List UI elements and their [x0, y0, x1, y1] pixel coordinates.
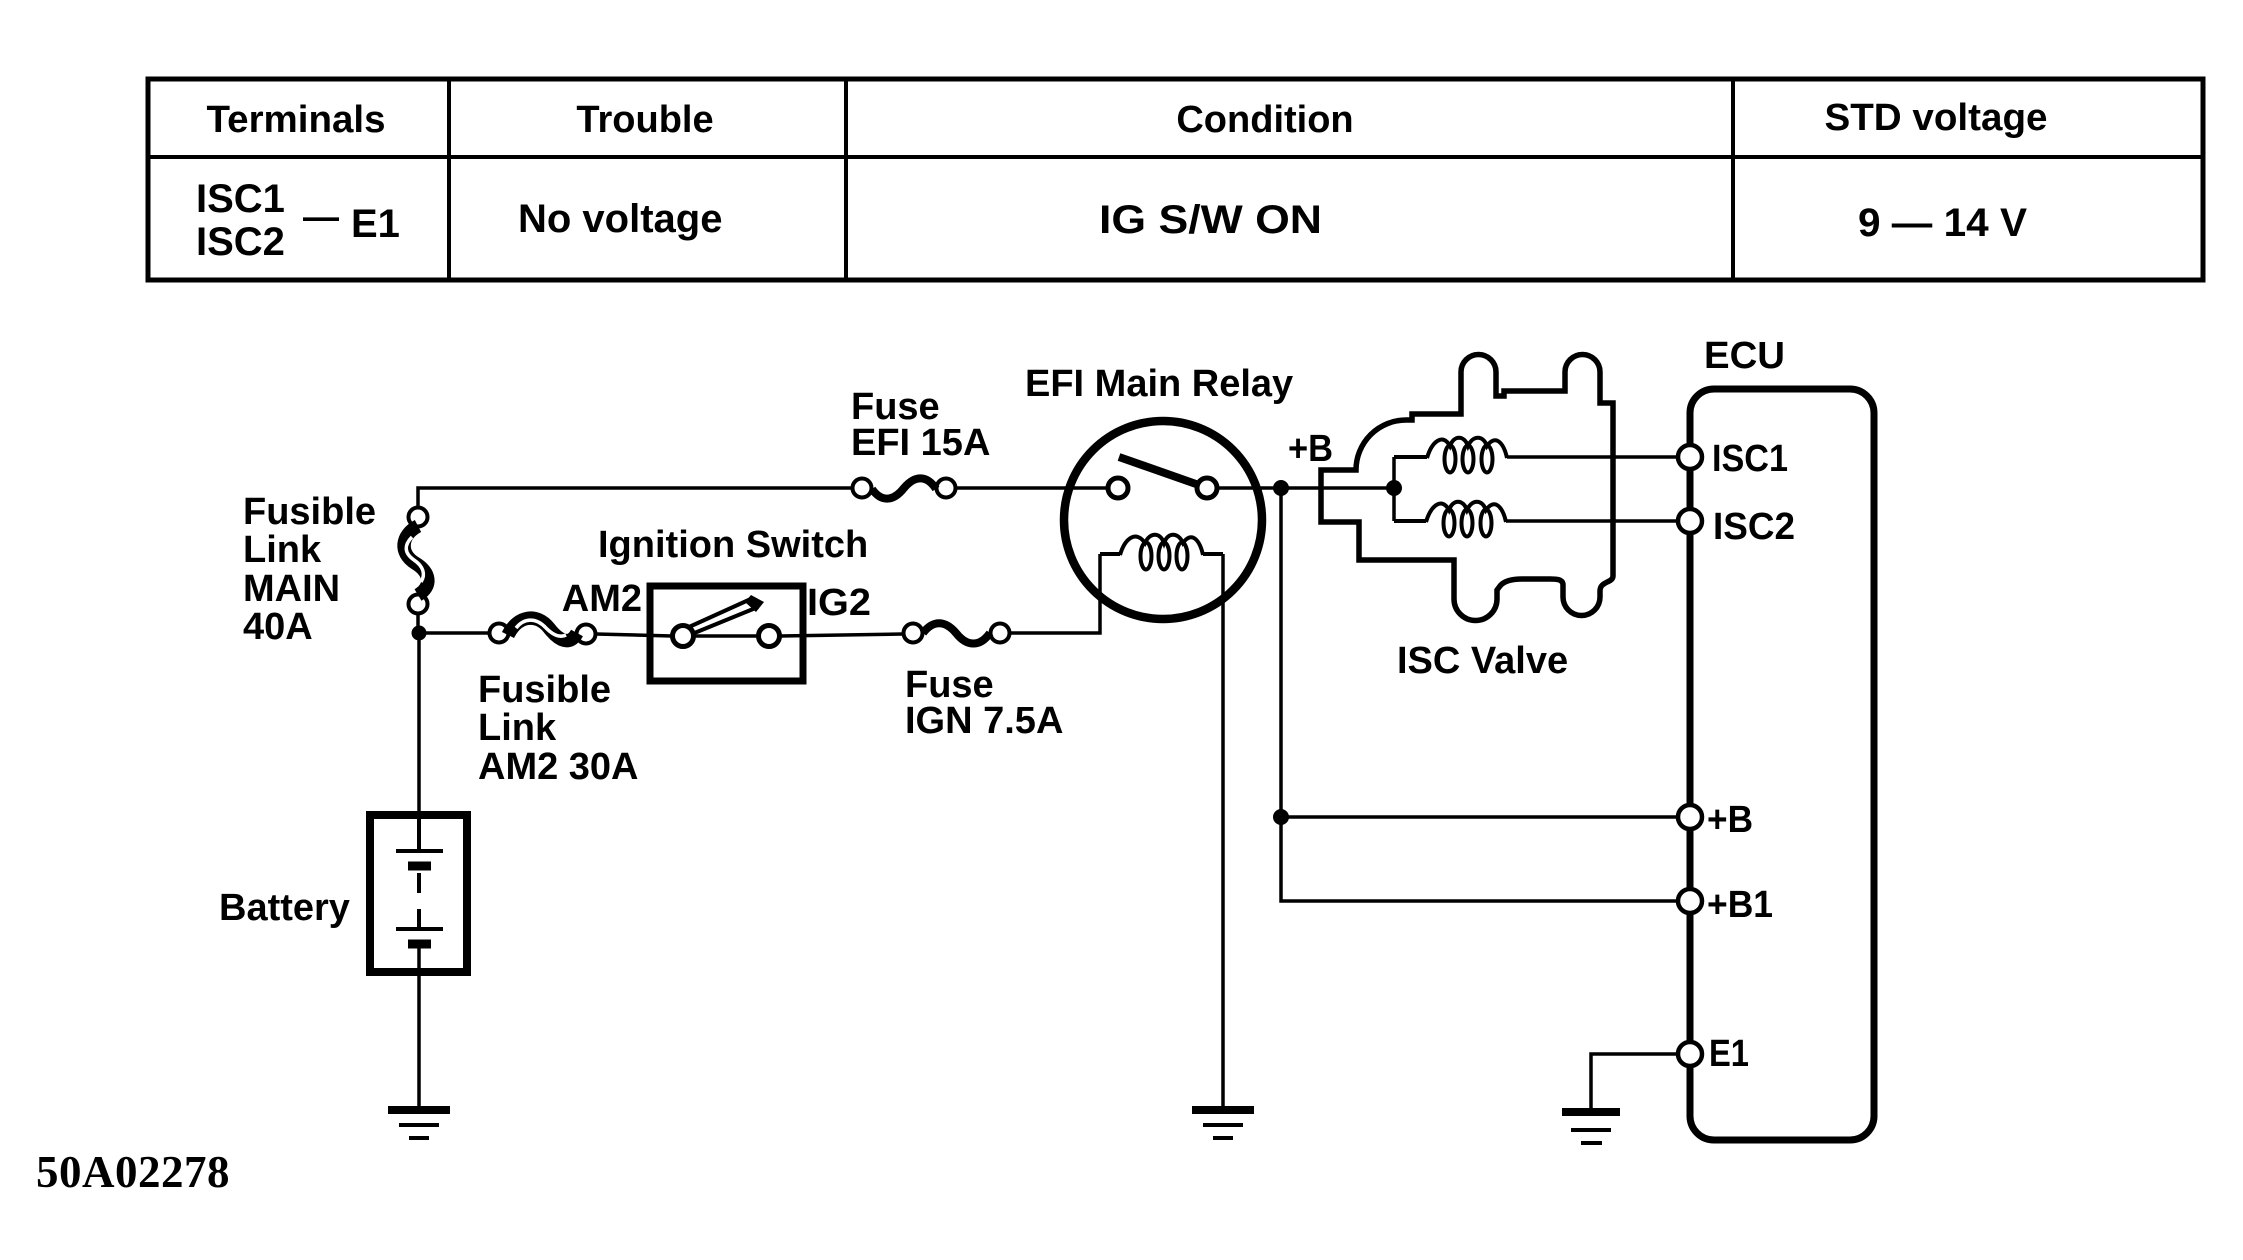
svg-text:E1: E1: [1709, 1033, 1749, 1075]
wire: ISC valve coil 1 to ECU ISC1: [1507, 455, 1677, 459]
node: ISC valve branch junction: [1386, 480, 1402, 496]
svg-text:ISC2: ISC2: [196, 220, 285, 264]
wire: fuse IGN to relay coil riser: [1010, 554, 1100, 633]
svg-text:IG S/W ON: IG S/W ON: [1099, 198, 1322, 242]
svg-text:+B: +B: [1707, 799, 1753, 841]
svg-text:Link: Link: [243, 529, 322, 571]
svg-text:IGN 7.5A: IGN 7.5A: [905, 700, 1063, 742]
ignition switch blade: [689, 595, 764, 634]
svg-text:Fusible: Fusible: [478, 669, 611, 711]
ECU terminal +B: [1678, 805, 1702, 829]
node: junction below fusible link MAIN: [412, 626, 427, 641]
EFI main relay circle: [1064, 421, 1262, 619]
fusible link MAIN 40A (vertical wavy link with terminals): [404, 508, 428, 614]
ECU terminal ISC1: [1678, 445, 1702, 469]
node: +B junction: [1273, 480, 1289, 496]
svg-text:Condition: Condition: [1176, 99, 1353, 141]
ECU box: [1690, 389, 1874, 1140]
svg-text:+B1: +B1: [1707, 884, 1773, 926]
relay switch blade: [1119, 457, 1196, 484]
wire: ignition switch to fuse IGN: [780, 634, 903, 636]
svg-text:MAIN: MAIN: [243, 568, 340, 610]
svg-text:ECU: ECU: [1704, 335, 1785, 377]
ECU terminal ISC2: [1678, 509, 1702, 533]
wire: +B junction down to ECU +B row: [1279, 488, 1283, 817]
wire: ISC valve coil 2 to ECU ISC2: [1506, 519, 1677, 523]
label: Fuse IGN 7.5A: [905, 664, 1063, 742]
svg-text:E1: E1: [351, 202, 400, 246]
ignition switch left contact: [673, 626, 694, 647]
wire: AM2 link to ignition switch: [596, 634, 672, 636]
svg-text:Ignition Switch: Ignition Switch: [598, 524, 868, 566]
svg-text:ISC Valve: ISC Valve: [1397, 640, 1568, 682]
svg-text:AM2: AM2: [562, 578, 642, 620]
label: Fusible Link MAIN 40A: [243, 491, 376, 648]
wire: relay output to ISC valve: [1217, 486, 1394, 490]
fusible link AM2 30A (horizontal wavy link with terminals): [490, 618, 596, 643]
label: Fusible Link AM2 30A: [478, 669, 639, 788]
wire: battery negative to ground: [417, 944, 421, 1107]
ground: battery: [388, 1110, 450, 1138]
svg-text:ISC1: ISC1: [196, 177, 285, 221]
wire: relay coil to ground: [1221, 554, 1225, 1107]
node: +B row junction: [1273, 809, 1289, 825]
svg-text:—: —: [303, 196, 339, 237]
svg-text:9 — 14 V: 9 — 14 V: [1858, 201, 2027, 245]
wire: fuse EFI to relay: [956, 486, 1108, 490]
fuse IGN 7.5A: [904, 623, 1010, 643]
svg-text:+B: +B: [1288, 428, 1333, 470]
ECU terminal E1: [1678, 1042, 1702, 1066]
wire: down to +B1 row and to ECU: [1281, 817, 1677, 901]
svg-text:50A02278: 50A02278: [36, 1147, 230, 1197]
ignition switch box: [650, 586, 803, 681]
table cell: terminals ISC1 ISC2 - E1: [196, 177, 400, 264]
ISC valve coil 1 (to ISC1): [1394, 438, 1507, 473]
svg-text:No voltage: No voltage: [518, 197, 722, 241]
wire: branch vertical inside ISC valve: [1392, 457, 1396, 521]
label: Fuse EFI 15A: [851, 386, 990, 464]
wire: fusible link MAIN to junction: [416, 612, 420, 630]
svg-text:Terminals: Terminals: [207, 99, 386, 141]
ignition switch right contact: [759, 626, 780, 647]
svg-text:ISC1: ISC1: [1712, 438, 1788, 480]
battery: [370, 815, 467, 972]
svg-text:IG2: IG2: [807, 582, 871, 624]
wire: E1 to ground: [1591, 1054, 1678, 1109]
ISC valve coil 2 (to ISC2): [1394, 502, 1506, 537]
wire: battery top to fusible link MAIN and top row: [418, 488, 852, 507]
ECU terminal +B1: [1678, 889, 1702, 913]
svg-text:40A: 40A: [243, 606, 313, 648]
relay coil: [1100, 535, 1223, 570]
table frame: [148, 79, 2203, 280]
wire: junction down to battery: [417, 633, 421, 851]
svg-text:Fusible: Fusible: [243, 491, 376, 533]
relay right contact: [1197, 478, 1217, 498]
wire: +B row to ECU: [1281, 815, 1677, 819]
ground: E1: [1562, 1112, 1620, 1143]
svg-text:STD voltage: STD voltage: [1825, 97, 2048, 139]
svg-text:EFI Main Relay: EFI Main Relay: [1025, 363, 1293, 405]
svg-text:Battery: Battery: [219, 887, 350, 929]
svg-text:EFI 15A: EFI 15A: [851, 422, 990, 464]
ISC valve outline: [1321, 355, 1613, 621]
wire: junction to AM2 fusible link: [419, 631, 489, 635]
ground: below relay coil: [1192, 1110, 1254, 1138]
svg-text:Trouble: Trouble: [576, 99, 713, 141]
svg-text:AM2 30A: AM2 30A: [478, 746, 639, 788]
svg-text:ISC2: ISC2: [1713, 506, 1795, 548]
wire: between ignition switch contacts: [690, 634, 762, 638]
fuse EFI 15A: [853, 478, 956, 498]
relay left contact: [1108, 478, 1128, 498]
svg-text:Link: Link: [478, 707, 557, 749]
